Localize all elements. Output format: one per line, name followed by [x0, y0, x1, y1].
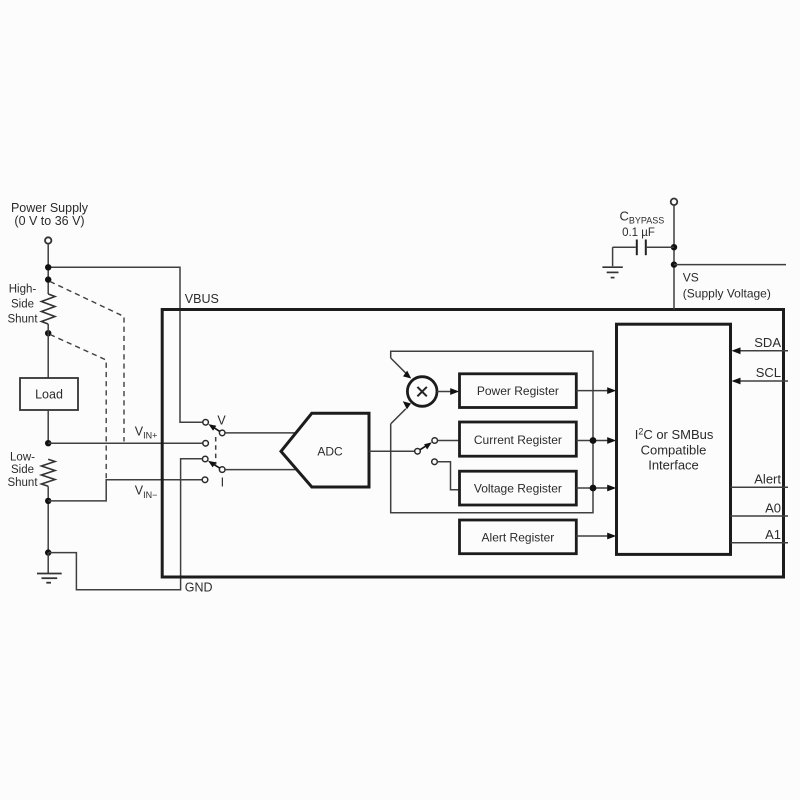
- switch input VIN+ contact: [203, 441, 209, 447]
- switch input V contact: [203, 420, 209, 426]
- svg-text:SCL: SCL: [756, 365, 781, 380]
- svg-text:Voltage Register: Voltage Register: [474, 482, 562, 496]
- pin Alert: [731, 486, 789, 488]
- switch output current contact: [432, 438, 438, 444]
- wire ground to GND pin: [48, 459, 202, 590]
- IC boundary box: [162, 310, 783, 578]
- wire multiplier to power register: [437, 391, 452, 393]
- node ground: [45, 549, 51, 555]
- wire VS rail: [674, 264, 786, 266]
- svg-text:Side: Side: [11, 464, 34, 476]
- wire switch to ADC top: [225, 432, 297, 434]
- svg-text:Load: Load: [35, 388, 63, 402]
- svg-text:VS: VS: [683, 271, 699, 285]
- current register: [460, 422, 577, 456]
- wire low-side shunt bottom: [47, 486, 49, 552]
- switch input VIN- contact: [202, 477, 208, 483]
- svg-text:I: I: [221, 476, 224, 490]
- load box: [20, 378, 78, 410]
- svg-text:Compatible: Compatible: [641, 442, 707, 457]
- wire switch to ADC bottom: [225, 469, 297, 471]
- svg-text:0.1 µF: 0.1 µF: [622, 227, 655, 239]
- node VIN-: [45, 498, 51, 504]
- switch input common pole 1: [219, 430, 225, 436]
- wire feedback loop: [391, 351, 593, 513]
- resistor low-side shunt: [41, 459, 55, 486]
- svg-text:VBUS: VBUS: [185, 292, 219, 306]
- resistor high-side shunt: [41, 294, 55, 324]
- switch coupling dashed: [215, 437, 217, 465]
- switch arm pole 2: [213, 464, 220, 468]
- pin A1: [731, 542, 789, 544]
- svg-text:Low-: Low-: [10, 451, 35, 463]
- node voltage feedback: [590, 485, 597, 492]
- node VIN+: [45, 440, 51, 446]
- power supply terminal: [45, 237, 51, 243]
- ground: [47, 553, 49, 574]
- wire to current register: [438, 440, 460, 442]
- wire current register to interface: [576, 440, 608, 442]
- svg-text:I2C or SMBus: I2C or SMBus: [635, 427, 714, 443]
- svg-text:Interface: Interface: [648, 457, 699, 472]
- node VS rail: [671, 261, 677, 267]
- node current feedback: [590, 437, 597, 444]
- svg-text:GND: GND: [185, 581, 213, 595]
- op ADC: [281, 413, 369, 487]
- wire VIN+: [48, 442, 203, 444]
- ground bypass: [612, 247, 614, 266]
- pin SCL: [740, 380, 789, 382]
- svg-text:(0 V to 36 V): (0 V to 36 V): [14, 214, 84, 228]
- power register: [460, 374, 577, 408]
- wire power register to interface: [576, 390, 608, 392]
- switch input GND contact: [202, 456, 208, 462]
- svg-text:Shunt: Shunt: [7, 314, 38, 326]
- wire alert register to interface: [576, 535, 608, 537]
- wire to voltage register: [437, 462, 459, 490]
- svg-text:SDA: SDA: [754, 335, 781, 350]
- VS terminal: [671, 199, 678, 206]
- svg-text:V: V: [217, 414, 226, 428]
- interface box I2C: [617, 324, 731, 554]
- wire VIN-: [48, 480, 203, 501]
- svg-text:A0: A0: [765, 500, 781, 515]
- wire shunt to load: [47, 324, 49, 378]
- svg-text:Alert Register: Alert Register: [482, 530, 555, 544]
- svg-text:Current Register: Current Register: [474, 433, 562, 447]
- svg-text:Power Register: Power Register: [477, 384, 559, 398]
- node high-side shunt top: [45, 276, 51, 282]
- switch output voltage contact: [432, 459, 438, 465]
- multiplier: [407, 377, 437, 407]
- svg-text:A1: A1: [765, 527, 781, 542]
- svg-text:Alert: Alert: [754, 471, 781, 486]
- capacitor CBYPASS: [636, 240, 638, 256]
- wire terminal to rail: [47, 244, 49, 294]
- wire ADC output: [369, 450, 415, 452]
- svg-text:(Supply Voltage): (Supply Voltage): [683, 287, 771, 301]
- svg-text:High-: High-: [9, 284, 37, 296]
- wire dashed high-side top to VIN+: [50, 282, 124, 442]
- wire top rail to VBUS pin: [48, 267, 203, 422]
- svg-text:Side: Side: [11, 299, 34, 311]
- wire current to multiplier: [391, 358, 406, 373]
- svg-text:Shunt: Shunt: [7, 477, 38, 489]
- wire VS to IC: [673, 205, 675, 309]
- switch arm output: [420, 446, 427, 450]
- switch output common: [415, 449, 421, 455]
- node bypass: [671, 244, 677, 250]
- pin A0: [731, 515, 789, 517]
- svg-text:ADC: ADC: [317, 445, 343, 459]
- wire dashed high-side bottom to VIN-: [50, 335, 106, 479]
- node rail junction: [45, 264, 51, 270]
- alert register: [460, 520, 577, 554]
- switch input common pole 2: [219, 467, 225, 473]
- wire voltage register to interface: [576, 487, 608, 489]
- wire voltage to multiplier: [391, 409, 406, 424]
- switch arm pole 1: [214, 427, 220, 431]
- voltage register: [460, 471, 577, 505]
- wire load to VIN+ node: [47, 410, 49, 443]
- pin SDA: [740, 350, 789, 352]
- node high-side shunt bottom: [45, 330, 51, 336]
